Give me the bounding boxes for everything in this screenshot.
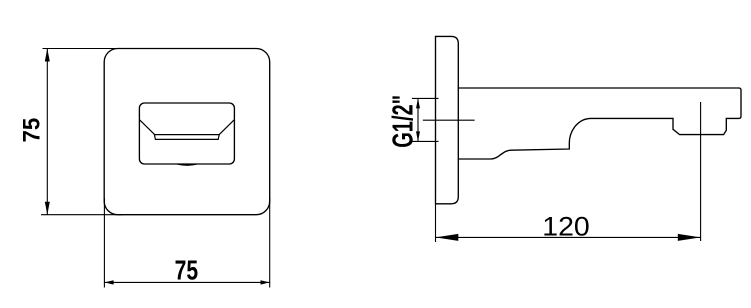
front view: left chamfer line	[140, 120, 155, 135]
dim 120: dimension line	[436, 236, 701, 238]
side view: thread centerline	[423, 119, 475, 121]
front view: right chamfer line	[219, 120, 234, 135]
dim G1/2: top extension line	[412, 97, 439, 99]
dim 75 vertical: top extension line	[43, 48, 118, 50]
dim 75 horizontal: dimension line	[104, 281, 269, 283]
svg-text:75: 75	[175, 254, 199, 285]
dim G1/2: top arrow	[416, 98, 420, 108]
svg-text:G1/2": G1/2"	[387, 95, 419, 148]
front view: spout body rounded rect	[139, 103, 234, 164]
dim 75 horizontal: right extension line	[269, 198, 271, 288]
front view: aerator arc at bottom	[178, 164, 197, 165]
dim 75 horizontal: left arrow	[104, 280, 113, 284]
dim 120: left extension line	[435, 204, 437, 242]
front view: spout lip bar	[154, 135, 219, 140]
svg-text:120: 120	[542, 212, 590, 242]
dim 75 vertical: bottom extension line	[41, 214, 123, 216]
dim G1/2: bottom extension line	[412, 140, 439, 142]
dim G1/2: dimension line	[417, 98, 419, 141]
dim 75 horizontal: right arrow	[261, 280, 270, 284]
side view: wall flange plate	[436, 36, 459, 203]
dim 75 horizontal: left extension line	[103, 198, 105, 288]
front view: wall plate square	[104, 49, 270, 215]
dim 120: right extension line	[700, 102, 702, 241]
dim 120: left arrow	[436, 234, 459, 241]
svg-text:75: 75	[18, 118, 45, 143]
dim 75 vertical: bottom arrow	[45, 202, 50, 215]
dim G1/2: bottom arrow	[416, 131, 420, 141]
dim 75 vertical: dimension line	[46, 49, 48, 215]
dim 120: right arrow	[678, 234, 701, 241]
side view: spout body outline	[458, 88, 741, 159]
dim 75 vertical: top arrow	[45, 49, 50, 62]
